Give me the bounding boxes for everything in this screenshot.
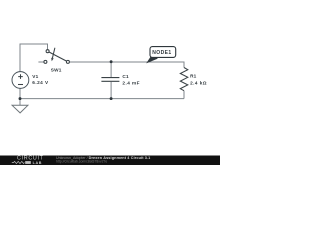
- svg-text:NODE1: NODE1: [152, 50, 171, 56]
- svg-text:6.24 V: 6.24 V: [32, 80, 49, 85]
- svg-text:C1: C1: [122, 74, 129, 79]
- svg-text:SW1: SW1: [51, 68, 62, 73]
- svg-text:2.4 kΩ: 2.4 kΩ: [190, 80, 207, 85]
- svg-text:V1: V1: [32, 74, 38, 79]
- svg-text:http://circuitlab.com/c8at378x: http://circuitlab.com/c8at378xv27e: [56, 159, 107, 163]
- svg-text:2.4 mF: 2.4 mF: [122, 80, 140, 85]
- svg-text:R1: R1: [190, 74, 197, 79]
- svg-text:LAB: LAB: [33, 161, 43, 165]
